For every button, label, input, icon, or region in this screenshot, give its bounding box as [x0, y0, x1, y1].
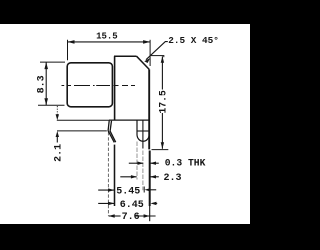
dim 17.5 bottom arrow	[161, 142, 164, 149]
dim 15.5 extension line right	[149, 40, 151, 66]
lug-tip dashed extension	[107, 132, 109, 216]
svg-text:5.45: 5.45	[116, 187, 140, 198]
leader line for chamfer note	[146, 42, 168, 60]
dim 5.45 left arrow (points right at leg)	[108, 188, 115, 191]
right extension line below pin (thick)	[149, 151, 151, 207]
dim 7.6 right arrow (points right)	[144, 214, 150, 217]
svg-text:2.1: 2.1	[53, 144, 64, 162]
dim 6.45 left arrow (points right at leg)	[108, 202, 115, 205]
left leg	[114, 145, 116, 206]
dim 15.5 left arrow	[68, 40, 75, 44]
flange plate left edge	[114, 56, 116, 120]
dim 5.45 right tick	[143, 187, 145, 193]
dim 15.5 line	[68, 41, 151, 43]
pin-left dashed extension	[142, 151, 144, 191]
stub-left dashed extension	[136, 142, 138, 180]
white drawing sheet band	[0, 24, 250, 224]
flange right edge / pin right edge (thick)	[148, 69, 150, 149]
dim 5.45 right tail	[150, 189, 156, 191]
dim 2.1 dotted tail above	[56, 106, 58, 115]
dim 15.5 right arrow	[143, 40, 150, 44]
chamfer 2.5x45 edge	[137, 56, 150, 69]
dim 0.3 right arrow (points left)	[150, 162, 156, 165]
dim 2.1 extension upper (flange bottom extended)	[57, 119, 110, 121]
flange top edge	[114, 55, 137, 57]
dim 7.6 line right segment	[136, 215, 156, 217]
dim 2.1 upper arrow (points down)	[56, 114, 59, 120]
center pin left edge	[142, 120, 144, 148]
dim 8.3 line	[45, 62, 47, 105]
centerline dash-dot through body	[62, 85, 136, 87]
svg-text:17.5: 17.5	[157, 90, 168, 113]
dim 8.3 extension top	[40, 61, 65, 63]
dim 0.3 left arrow (points right)	[138, 162, 144, 165]
dim 17.5 line lower part	[161, 113, 163, 149]
svg-text:8.3: 8.3	[37, 75, 48, 93]
dim 7.6 left arrow (points left)	[109, 214, 115, 217]
leader arrowhead	[144, 58, 150, 63]
dim 2.1 tail below	[56, 137, 58, 143]
dim 8.3 extension bottom	[38, 104, 65, 106]
dim 2.3 right arrow (points left)	[150, 175, 156, 178]
dim 8.3 top arrow	[44, 62, 48, 69]
svg-text:6.45: 6.45	[120, 200, 144, 211]
dim 5.45 right arrow (points left at tick)	[145, 188, 151, 191]
stub left vertical	[136, 120, 138, 134]
dim 5.45 line left segment	[98, 189, 114, 191]
dim 6.45 right arrow (points left at thick line)	[150, 202, 156, 205]
solder lug bent strip (inner line)	[110, 121, 116, 143]
svg-text:2.5 X 45°: 2.5 X 45°	[168, 35, 219, 46]
dim 2.3 line right segment	[150, 176, 159, 178]
svg-text:15.5: 15.5	[96, 32, 118, 42]
dim 2.1 lower arrow (points up)	[56, 131, 59, 137]
dim 2.1 extension lower (lug tip extended)	[57, 130, 107, 132]
dim 0.3 line right segment	[150, 162, 159, 164]
svg-text:0.3 THK: 0.3 THK	[165, 157, 206, 168]
stub seam line	[137, 130, 149, 132]
dim 6.45 line left segment	[98, 202, 114, 204]
dim 2.3 left arrow (points right)	[131, 175, 137, 178]
dim 17.5 extension bottom	[152, 149, 169, 151]
dim 17.5 top arrow	[161, 56, 164, 63]
dim 15.5 extension line left	[67, 40, 69, 61]
solder lug bent strip (outer line)	[108, 121, 114, 143]
stub round bottom arc	[137, 135, 149, 142]
dim 17.5 extension top	[151, 55, 164, 57]
dim 8.3 bottom arrow	[44, 98, 48, 105]
dim 17.5 line upper part	[161, 56, 163, 89]
dim 0.3 line left segment	[129, 162, 143, 164]
svg-text:7.6: 7.6	[122, 212, 140, 223]
dim 7.6 line left segment	[109, 215, 121, 217]
svg-text:2.3: 2.3	[164, 173, 182, 184]
body outline (rounded rect barrel)	[67, 63, 112, 107]
flange bottom edge	[109, 119, 149, 121]
dim 2.3 line left segment	[120, 176, 136, 178]
